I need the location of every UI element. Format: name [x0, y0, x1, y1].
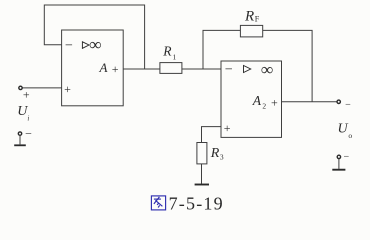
svg-text:A: A — [252, 93, 262, 108]
lower-right terminal — [337, 155, 340, 158]
svg-text:7-5-19: 7-5-19 — [169, 194, 224, 214]
wire RF left branch — [203, 30, 240, 69]
output terminal Uo — [337, 100, 340, 103]
svg-text:+: + — [271, 96, 278, 110]
svg-text:−: − — [343, 152, 349, 163]
resistor R3 — [197, 143, 207, 164]
wire input+ to A1 — [22, 87, 61, 89]
wire RF right to output — [263, 30, 312, 101]
svg-text:3: 3 — [220, 152, 224, 161]
svg-text:−: − — [225, 63, 233, 78]
svg-text:F: F — [255, 15, 260, 24]
op-amp A1 gain triangle — [82, 42, 89, 49]
resistor RF — [240, 25, 262, 37]
wire R3 to ground — [201, 164, 203, 184]
svg-text:R: R — [244, 8, 254, 24]
svg-text:−: − — [345, 99, 351, 110]
svg-text:+: + — [23, 88, 30, 102]
ground (input) — [19, 136, 21, 145]
op-amp A2 box — [221, 61, 282, 137]
svg-text:+: + — [112, 62, 119, 76]
svg-text:−: − — [25, 126, 32, 140]
svg-text:−: − — [65, 39, 73, 54]
svg-text:1: 1 — [173, 53, 177, 62]
wire A2 noninverting input to R3 — [202, 127, 222, 143]
svg-text:2: 2 — [262, 101, 266, 110]
svg-text:+: + — [64, 82, 71, 96]
caption 图 glyph — [151, 196, 165, 210]
input terminal Ui — [19, 86, 22, 89]
wire A2 output to terminal — [282, 101, 338, 103]
svg-text:∞: ∞ — [89, 35, 101, 54]
op-amp A2 gain triangle — [244, 66, 251, 73]
svg-text:A: A — [99, 60, 108, 75]
svg-text:U: U — [338, 122, 349, 137]
svg-text:o: o — [348, 131, 352, 140]
op-amp A1 box — [62, 30, 124, 106]
wire R1 to A2 inverting input — [182, 68, 221, 70]
wire A1 output to R1 — [123, 68, 160, 70]
lower-left terminal — [18, 132, 21, 135]
svg-text:R: R — [210, 146, 220, 161]
svg-text:R: R — [162, 44, 172, 59]
svg-text:+: + — [224, 121, 231, 135]
resistor R1 — [160, 63, 182, 74]
svg-text:∞: ∞ — [261, 60, 273, 79]
ground (output) — [338, 159, 340, 169]
svg-text:i: i — [27, 114, 29, 122]
ground (R3) — [195, 184, 209, 186]
wire A1 feedback loop — [44, 5, 144, 69]
